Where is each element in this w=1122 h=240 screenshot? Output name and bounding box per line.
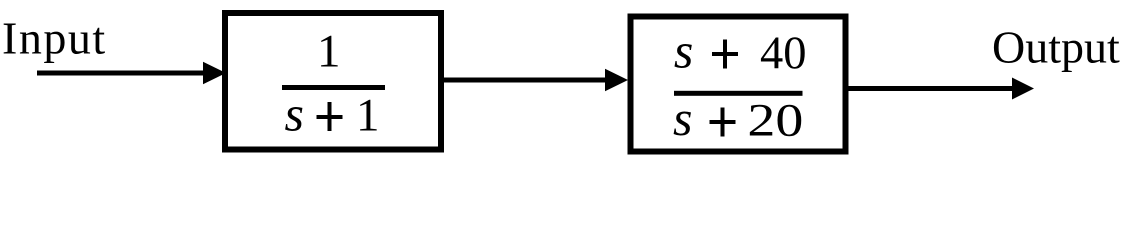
svg-text:1: 1 bbox=[317, 26, 341, 78]
output arrowhead bbox=[1012, 78, 1034, 100]
value denominator s+20 of G2 bbox=[673, 90, 803, 147]
svg-text:s: s bbox=[285, 86, 304, 142]
svg-text:1: 1 bbox=[356, 90, 380, 142]
value numerator s+40 of G2 bbox=[674, 23, 807, 80]
value denominator s+1 of G1 bbox=[285, 86, 380, 142]
block G1 transfer function 1/(s+1) bbox=[225, 13, 441, 150]
arrowhead into G2 bbox=[605, 69, 628, 91]
wire output arrow shaft bbox=[848, 86, 1014, 91]
svg-text:20: 20 bbox=[747, 95, 803, 147]
fraction bar of G2 bbox=[674, 91, 803, 96]
block G2 transfer function (s+40)/(s+20) bbox=[631, 17, 846, 152]
svg-text:Input: Input bbox=[2, 13, 107, 64]
input arrowhead bbox=[203, 62, 226, 84]
fraction bar of G1 bbox=[282, 85, 385, 90]
svg-text:s: s bbox=[673, 90, 692, 146]
svg-text:Output: Output bbox=[992, 22, 1120, 73]
svg-text:s: s bbox=[674, 23, 693, 79]
svg-text:40: 40 bbox=[760, 27, 807, 79]
wire G1 to G2 shaft bbox=[443, 78, 608, 83]
wire input arrow shaft bbox=[37, 71, 206, 76]
